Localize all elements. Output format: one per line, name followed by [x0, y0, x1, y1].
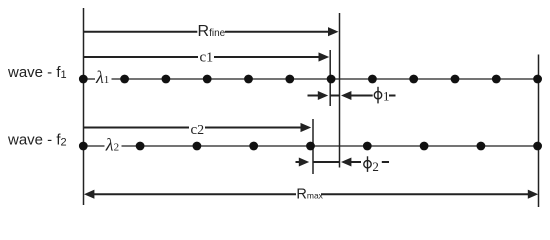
svg-text:Rmax: Rmax	[296, 186, 323, 202]
node left reference line	[83, 8, 85, 205]
dimension arrow Rfine	[84, 27, 339, 36]
dimension arrow c1	[84, 52, 330, 61]
svg-text:λ2: λ2	[105, 134, 119, 154]
svg-text:2: 2	[372, 159, 379, 174]
node c1 end reference line	[329, 50, 331, 106]
wire wave f1 line	[84, 78, 539, 80]
svg-text:c1: c1	[200, 50, 214, 66]
dimension arrow Rmax	[84, 190, 538, 199]
node right reference line	[538, 55, 540, 208]
label phi1	[374, 87, 395, 104]
dimension arrows phi1	[308, 91, 373, 100]
label phi2	[364, 156, 389, 174]
node dots wave f1	[79, 75, 542, 84]
wire wave f2 line	[84, 145, 539, 147]
node Rfine end reference line	[339, 13, 341, 168]
node c2 end reference line	[312, 119, 314, 174]
svg-text:Rfine: Rfine	[198, 23, 226, 40]
svg-text:1: 1	[383, 89, 390, 104]
svg-text:wave - f2: wave - f2	[7, 132, 67, 149]
dimension arrows phi2	[296, 158, 362, 167]
svg-text:wave - f1: wave - f1	[7, 64, 67, 81]
node dots wave f2	[79, 142, 542, 151]
svg-text:c2: c2	[191, 122, 205, 138]
dimension arrow c2	[84, 123, 312, 132]
svg-text:λ1: λ1	[95, 67, 109, 87]
